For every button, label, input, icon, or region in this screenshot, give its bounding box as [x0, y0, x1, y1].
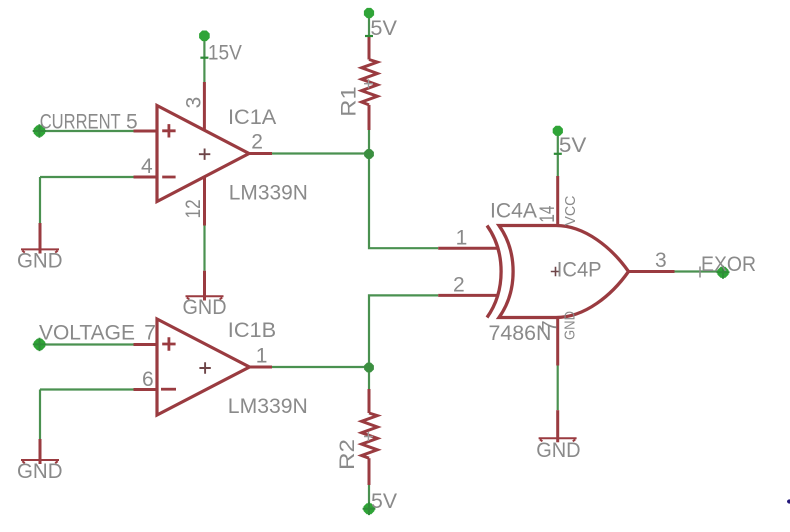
- wire pin4 net vertical: [39, 177, 41, 223]
- resistor R1 lead top: [368, 36, 371, 60]
- wire R1 bottom to node A: [368, 130, 370, 154]
- op-amp IC1A pin 2 stub: [248, 152, 272, 155]
- op-amp IC1B plus mark: [162, 337, 175, 350]
- wire XOR output to EXOR: [675, 270, 724, 272]
- wire pin6 net vertical: [39, 390, 41, 440]
- svg-text:2: 2: [453, 273, 465, 296]
- op-amp IC1A pin 4 stub: [134, 176, 159, 179]
- svg-text:IC4A: IC4A: [490, 199, 537, 222]
- supply 15V pin cross: [200, 57, 208, 59]
- resistor R2 lead bottom: [368, 458, 371, 485]
- wire 5V top to R1: [368, 17, 370, 36]
- op-amp IC1A pin 3 stub: [203, 82, 206, 131]
- svg-text:3: 3: [182, 97, 205, 109]
- junction node A dot: [364, 149, 374, 159]
- op-amp IC1A plus mark: [162, 124, 175, 137]
- wire 15V supply: [203, 40, 205, 82]
- svg-text:LM339N: LM339N: [229, 181, 308, 204]
- wire pin12 to GND: [203, 226, 205, 271]
- wire IC1B output: [272, 366, 369, 368]
- wire 5V to XOR VCC: [557, 135, 559, 176]
- svg-text:R2: R2: [336, 439, 359, 470]
- xor gate IC4A input arc: [487, 226, 501, 318]
- xor gate pin 1 stub: [438, 247, 498, 250]
- supply 5V bottom dot: [363, 502, 376, 515]
- wire VOLTAGE net horizontal: [40, 343, 134, 345]
- svg-text:12: 12: [182, 199, 205, 218]
- svg-text:3: 3: [655, 249, 667, 272]
- supply 5V top pin cross: [365, 35, 373, 37]
- svg-text:LM339N: LM339N: [228, 395, 308, 418]
- op-amp IC1A pin 12 stub: [203, 176, 206, 226]
- resistor R2 origin cross: [364, 432, 373, 441]
- ground symbol GND2 bar: [186, 296, 224, 299]
- wire R2 to 5V bottom: [368, 485, 370, 504]
- op-amp IC1B pin 6 stub: [134, 388, 159, 391]
- svg-text:14: 14: [536, 205, 559, 222]
- svg-text:7: 7: [539, 320, 562, 332]
- svg-text:R1: R1: [337, 86, 360, 116]
- xor gate VCC pin 14 stub: [556, 176, 559, 226]
- ground symbol GND3 stem: [39, 439, 42, 464]
- svg-text:IC4P: IC4P: [557, 258, 602, 281]
- op-amp IC1B minus mark: [161, 388, 176, 391]
- xor gate origin cross: [551, 267, 560, 276]
- label EXOR origin tick: [699, 267, 701, 278]
- ground symbol GND4 bar: [539, 438, 577, 441]
- svg-text:CURRENT: CURRENT: [40, 111, 121, 134]
- op-amp IC1A minus mark: [162, 176, 175, 179]
- ground symbol GND1 bar: [21, 249, 59, 252]
- op-amp IC1B pin 7 stub: [134, 343, 159, 346]
- op-amp IC1B pin 1 stub: [249, 366, 272, 369]
- wire CURRENT net horizontal: [39, 130, 133, 132]
- supply 5V right pin cross: [554, 153, 562, 155]
- xor gate IC4A body: [499, 226, 629, 318]
- svg-text:5V: 5V: [559, 134, 587, 157]
- op-amp IC1A triangle: [157, 106, 249, 202]
- svg-text:4: 4: [141, 155, 153, 178]
- wire IC1A output: [272, 152, 369, 154]
- resistor R1 origin cross: [364, 79, 373, 88]
- artifact blue dot right edge: [787, 499, 790, 503]
- wire node B to R2: [368, 368, 370, 390]
- supply 5V top dot: [364, 8, 374, 18]
- svg-text:6: 6: [142, 368, 154, 391]
- ground symbol GND1 stem: [39, 223, 42, 254]
- wire XOR GND pin to GND: [557, 366, 559, 411]
- wire pin4 net horizontal: [40, 176, 134, 178]
- op-amp IC1A center cross: [199, 149, 210, 160]
- svg-text:IC1A: IC1A: [228, 106, 276, 129]
- svg-text:5V: 5V: [371, 490, 397, 513]
- op-amp IC1A pin 5 stub: [134, 130, 159, 133]
- op-amp IC1B triangle: [157, 319, 250, 415]
- node VOLTAGE label dot: [33, 338, 46, 351]
- xor gate GND pin 7 stub: [556, 317, 559, 366]
- svg-text:VCC: VCC: [563, 196, 579, 226]
- svg-text:5V: 5V: [370, 17, 397, 40]
- wire node B vertical to XOR pin2: [369, 295, 438, 367]
- svg-text:VOLTAGE: VOLTAGE: [39, 321, 135, 344]
- xor gate pin 2 stub: [438, 294, 498, 297]
- xor gate pin 3 stub: [628, 270, 675, 273]
- resistor R1 zigzag: [362, 60, 378, 105]
- resistor R1 lead bottom: [368, 105, 371, 130]
- svg-text:2: 2: [251, 130, 263, 153]
- svg-text:1: 1: [456, 227, 468, 250]
- node CURRENT label dot: [33, 124, 46, 137]
- svg-text:GND: GND: [183, 296, 227, 319]
- svg-text:GND: GND: [17, 460, 63, 483]
- svg-text:5: 5: [126, 110, 138, 133]
- ground symbol GND3 bar: [21, 460, 59, 463]
- ground symbol GND2 stem: [203, 271, 206, 301]
- svg-text:IC1B: IC1B: [228, 319, 276, 342]
- svg-text:GND: GND: [536, 439, 580, 462]
- svg-text:7: 7: [144, 321, 156, 344]
- wire node A vertical to XOR pin1: [369, 154, 438, 249]
- node EXOR label dot: [717, 266, 730, 279]
- supply 15V dot: [199, 31, 210, 42]
- svg-text:15V: 15V: [208, 42, 242, 65]
- op-amp IC1B center cross: [199, 362, 210, 373]
- svg-text:EXOR: EXOR: [701, 253, 756, 276]
- resistor R2 lead top: [368, 389, 371, 413]
- resistor R2 zigzag: [362, 413, 378, 458]
- ground symbol GND4 stem: [556, 410, 559, 442]
- svg-text:GND: GND: [17, 250, 63, 273]
- wire pin6 net horizontal: [40, 388, 134, 390]
- svg-text:1: 1: [256, 345, 268, 368]
- junction node B dot: [364, 363, 374, 373]
- svg-text:GND: GND: [562, 311, 578, 340]
- supply 5V right dot: [553, 126, 563, 136]
